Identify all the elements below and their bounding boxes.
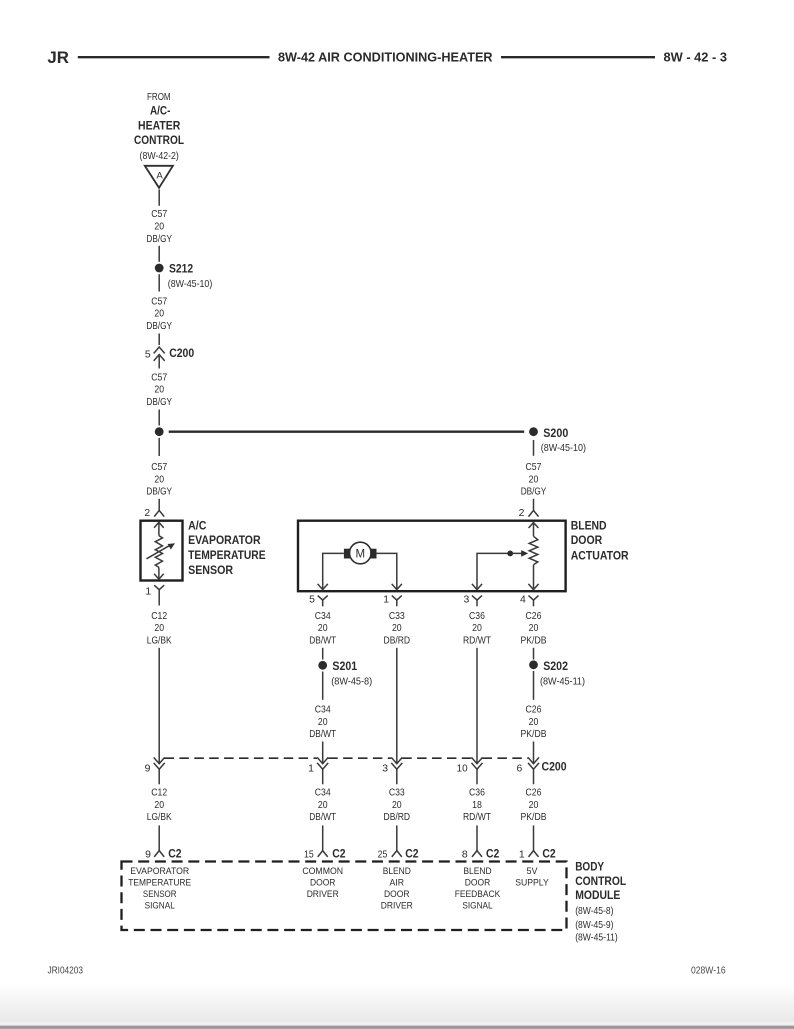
svg-text:C36: C36 — [469, 611, 485, 622]
wire col4 label to BCM — [476, 825, 478, 850]
svg-text:9: 9 — [145, 849, 151, 860]
svg-text:DOOR: DOOR — [465, 877, 491, 888]
svg-text:15: 15 — [304, 849, 314, 860]
svg-text:S212: S212 — [169, 262, 193, 276]
thermistor inside sensor — [147, 522, 176, 579]
BCM pin function BLEND DOOR FEEDBACK SIGNAL — [455, 865, 501, 911]
svg-text:(8W-45-11): (8W-45-11) — [540, 677, 585, 688]
A/C evaporator temperature sensor box — [141, 521, 183, 581]
wire label to actuator pin 2 — [533, 499, 535, 511]
svg-text:DB/WT: DB/WT — [309, 729, 337, 740]
svg-text:DB/GY: DB/GY — [146, 321, 172, 332]
svg-text:2: 2 — [519, 508, 525, 519]
svg-text:DB/RD: DB/RD — [384, 635, 411, 646]
svg-text:C2: C2 — [486, 847, 500, 861]
junction node dot — [155, 427, 164, 436]
svg-text:EVAPORATOR: EVAPORATOR — [130, 865, 189, 876]
connector C200 pin 10 (double chevron col4) — [457, 757, 483, 774]
svg-text:JR: JR — [47, 49, 69, 67]
connector C200 dashed line segment 3 — [402, 757, 471, 759]
connector pin 1 below sensor (fork) — [145, 585, 164, 605]
svg-text:C12: C12 — [151, 788, 167, 799]
wire S202 down — [533, 671, 535, 700]
wire label to splice S212 — [158, 246, 160, 262]
svg-text:5: 5 — [309, 594, 315, 605]
svg-text:C34: C34 — [315, 788, 331, 799]
svg-text:(8W-45-8): (8W-45-8) — [575, 906, 613, 917]
wire S201 down — [322, 672, 324, 700]
wire col2 label to BCM — [322, 825, 324, 850]
svg-text:SENSOR: SENSOR — [143, 888, 177, 899]
wire S200 down col5 — [533, 440, 535, 456]
wire label C57 20 DB/GY col5 — [521, 462, 547, 498]
motor M inside actuator — [344, 542, 377, 564]
off-page connector triangle A — [145, 166, 173, 188]
wire label C34 20 DB/WT col2 (3) — [309, 788, 337, 824]
svg-text:C26: C26 — [526, 611, 542, 622]
svg-text:LG/BK: LG/BK — [147, 812, 172, 823]
svg-text:20: 20 — [529, 623, 539, 634]
wire label C33 20 DB/RD col3 — [384, 611, 411, 647]
connector C200 pin 9 (double chevron col1) — [145, 757, 165, 774]
svg-text:PK/DB: PK/DB — [521, 635, 547, 646]
module name BODY CONTROL MODULE — [575, 859, 627, 943]
svg-text:C36: C36 — [469, 788, 485, 799]
wire col1 label to BCM — [158, 825, 160, 850]
wire col3 C200 to label — [396, 769, 398, 784]
svg-text:A/C-: A/C- — [150, 103, 170, 117]
wire col2 label to C200 — [322, 742, 324, 764]
svg-text:20: 20 — [318, 717, 328, 728]
svg-text:C33: C33 — [389, 788, 405, 799]
wire label to connector C200 — [158, 334, 160, 346]
svg-text:1: 1 — [308, 764, 314, 775]
in-line connector C200 pin 5 (double chevron) — [145, 346, 195, 361]
wire label C57 20 DB/GY (1) — [146, 209, 172, 245]
svg-text:20: 20 — [318, 800, 328, 811]
wire junction down col1 — [158, 438, 160, 456]
svg-text:3: 3 — [382, 764, 388, 775]
wire motor left brush to pin 5 drop — [318, 553, 344, 589]
svg-text:M: M — [356, 548, 366, 560]
splice S200 — [529, 426, 586, 454]
connector pin 1 below actuator (fork) — [383, 594, 401, 606]
svg-text:EVAPORATOR: EVAPORATOR — [188, 533, 261, 547]
BCM pin function 5V SUPPLY — [515, 865, 549, 888]
sensor name A/C EVAPORATOR TEMPERATURE SENSOR — [188, 519, 266, 578]
connector C200 pin 6 (double chevron col5) — [517, 757, 540, 774]
connector pin 2 at sensor (fork) — [144, 508, 164, 519]
blend door actuator box — [298, 521, 566, 592]
svg-text:SUPPLY: SUPPLY — [515, 877, 549, 888]
svg-text:(8W-45-8): (8W-45-8) — [331, 677, 372, 688]
svg-text:5: 5 — [145, 349, 151, 360]
wire label C36 18 RD/WT col4 (2) — [463, 788, 492, 824]
connector C200 dashed line segment 4 — [483, 757, 529, 759]
wire label C57 20 DB/GY (2) — [146, 296, 172, 332]
wire label C12 20 LG/BK col1 (2) — [147, 788, 172, 824]
svg-text:1: 1 — [383, 594, 389, 605]
svg-text:CONTROL: CONTROL — [575, 874, 627, 888]
page bottom shadow — [0, 984, 794, 1029]
svg-text:1: 1 — [145, 586, 151, 597]
svg-text:25: 25 — [378, 849, 388, 860]
svg-text:ACTUATOR: ACTUATOR — [571, 549, 629, 563]
svg-text:BLEND: BLEND — [463, 865, 491, 876]
svg-text:(8W-45-10): (8W-45-10) — [168, 279, 213, 290]
wire label to sensor pin 2 — [158, 499, 160, 511]
svg-text:DB/GY: DB/GY — [146, 234, 172, 245]
connector pin 4 below actuator (fork) — [520, 594, 539, 606]
wire motor right brush to pin 1 drop — [377, 553, 402, 589]
svg-text:20: 20 — [392, 800, 402, 811]
connector C2 pin 1 (fork col5) — [519, 847, 556, 861]
svg-text:(8W-45-11): (8W-45-11) — [575, 932, 618, 943]
svg-text:CONTROL: CONTROL — [134, 133, 185, 147]
wire C200 to label — [158, 356, 160, 369]
svg-text:(8W-45-9): (8W-45-9) — [575, 920, 613, 931]
svg-text:S200: S200 — [543, 426, 568, 440]
svg-text:TEMPERATURE: TEMPERATURE — [128, 877, 191, 888]
wire col5 label to C200 — [533, 742, 535, 764]
svg-text:(8W-45-10): (8W-45-10) — [541, 443, 586, 454]
svg-text:A/C: A/C — [188, 519, 207, 533]
wire label C57 20 DB/GY col1 (4) — [146, 462, 172, 498]
connector C2 pin 15 (fork col2) — [304, 847, 346, 861]
svg-text:RD/WT: RD/WT — [463, 635, 492, 646]
svg-text:028W-16: 028W-16 — [691, 966, 726, 977]
svg-text:DB/GY: DB/GY — [146, 487, 172, 498]
connector C2 pin 9 (fork col1) — [145, 847, 182, 861]
svg-text:(8W-42-2): (8W-42-2) — [140, 151, 179, 162]
svg-text:C57: C57 — [151, 209, 167, 220]
svg-text:18: 18 — [472, 800, 482, 811]
svg-text:10: 10 — [457, 764, 468, 775]
svg-text:LG/BK: LG/BK — [147, 635, 172, 646]
connector C200 dashed line segment 1 — [165, 757, 318, 759]
svg-text:PK/DB: PK/DB — [521, 729, 547, 740]
svg-text:JRI04203: JRI04203 — [48, 966, 84, 977]
svg-text:C2: C2 — [405, 847, 419, 861]
wire label C57 20 DB/GY (3) — [146, 372, 172, 408]
node label FROM A/C-HEATER CONTROL (8W-42-2) — [134, 92, 185, 162]
header JR — [47, 49, 69, 67]
splice S202 — [529, 659, 585, 688]
BCM pin function COMMON DOOR DRIVER — [302, 865, 343, 899]
svg-text:C57: C57 — [151, 296, 167, 307]
svg-text:20: 20 — [529, 800, 539, 811]
svg-text:HEATER: HEATER — [138, 118, 181, 132]
svg-text:20: 20 — [154, 222, 164, 233]
svg-text:2: 2 — [144, 508, 150, 519]
svg-text:8: 8 — [462, 849, 468, 860]
svg-text:6: 6 — [517, 764, 523, 775]
wire label C33 20 DB/RD col3 (2) — [384, 788, 411, 824]
svg-text:DOOR: DOOR — [384, 888, 410, 899]
connector C200 pin 1 (double chevron col2) — [308, 757, 328, 774]
svg-text:DB/WT: DB/WT — [309, 635, 337, 646]
svg-text:DRIVER: DRIVER — [307, 888, 339, 899]
svg-text:DOOR: DOOR — [310, 877, 336, 888]
svg-text:20: 20 — [154, 474, 164, 485]
svg-text:C57: C57 — [151, 462, 167, 473]
wire label C26 20 PK/DB col5 — [521, 611, 547, 647]
svg-text:1: 1 — [519, 849, 525, 860]
wire label C34 20 DB/WT col2 (2) — [309, 705, 337, 741]
BCM pin function BLEND AIR DOOR DRIVER — [381, 865, 413, 911]
svg-text:20: 20 — [392, 623, 402, 634]
wire col2 C200 to label — [322, 769, 324, 784]
svg-text:DOOR: DOOR — [571, 533, 603, 547]
svg-text:SIGNAL: SIGNAL — [462, 900, 492, 911]
svg-text:DB/GY: DB/GY — [521, 487, 547, 498]
wire triangle to C57 label — [158, 190, 160, 206]
svg-text:SIGNAL: SIGNAL — [145, 900, 175, 911]
wire col5 C200 to label — [533, 769, 535, 784]
body control module dashed box — [122, 862, 567, 931]
svg-text:C26: C26 — [526, 705, 542, 716]
wire col4 long run to C200 — [476, 648, 478, 764]
connector pin 2 at actuator (fork) — [519, 508, 539, 519]
svg-text:DB/WT: DB/WT — [309, 812, 337, 823]
svg-text:C200: C200 — [169, 346, 194, 360]
wire col1 long run to C200 — [158, 648, 160, 764]
svg-text:C200: C200 — [542, 759, 567, 773]
svg-text:C2: C2 — [168, 847, 182, 861]
svg-text:C57: C57 — [526, 462, 542, 473]
svg-text:MODULE: MODULE — [575, 888, 620, 902]
wire label C36 20 RD/WT col4 — [463, 611, 492, 647]
svg-text:8W-42 AIR CONDITIONING-HEATER: 8W-42 AIR CONDITIONING-HEATER — [278, 49, 493, 64]
svg-text:C33: C33 — [389, 611, 405, 622]
svg-text:SENSOR: SENSOR — [188, 563, 233, 577]
svg-text:3: 3 — [464, 594, 470, 605]
svg-text:S202: S202 — [543, 659, 568, 673]
svg-text:BLEND: BLEND — [571, 519, 607, 533]
svg-text:20: 20 — [154, 623, 164, 634]
svg-text:A: A — [156, 170, 163, 181]
svg-text:C2: C2 — [542, 847, 556, 861]
svg-text:4: 4 — [520, 594, 526, 605]
svg-text:20: 20 — [154, 800, 164, 811]
svg-text:AIR: AIR — [390, 877, 405, 888]
wire label C12 20 LG/BK col1 — [147, 611, 172, 647]
svg-text:20: 20 — [154, 309, 164, 320]
svg-text:BLEND: BLEND — [383, 865, 411, 876]
connector pin 5 below actuator (fork) — [309, 594, 328, 606]
svg-text:20: 20 — [154, 385, 164, 396]
connector C2 pin 8 (fork col4) — [462, 847, 500, 861]
svg-text:C34: C34 — [315, 705, 331, 716]
svg-text:BODY: BODY — [575, 859, 604, 873]
wiper wire from pin 3 with junction dot and arrow — [472, 550, 528, 590]
header rule right — [501, 56, 655, 58]
connector pin 3 below actuator (fork) — [464, 594, 483, 606]
header rule left — [78, 56, 270, 58]
svg-text:C57: C57 — [151, 372, 167, 383]
svg-text:COMMON: COMMON — [302, 865, 343, 876]
svg-text:PK/DB: PK/DB — [521, 812, 547, 823]
connector C200 dashed line segment 2 — [328, 757, 391, 759]
svg-text:8W - 42 - 3: 8W - 42 - 3 — [664, 49, 728, 64]
svg-text:C34: C34 — [315, 611, 331, 622]
svg-text:DB/GY: DB/GY — [146, 397, 172, 408]
splice S212 — [155, 262, 213, 291]
svg-text:FROM: FROM — [147, 92, 171, 103]
svg-text:RD/WT: RD/WT — [463, 812, 492, 823]
svg-text:DRIVER: DRIVER — [381, 900, 413, 911]
svg-text:20: 20 — [529, 717, 539, 728]
connector C200 pin 3 (double chevron col3) — [382, 757, 402, 774]
svg-text:DB/RD: DB/RD — [384, 812, 411, 823]
svg-text:5V: 5V — [527, 865, 539, 876]
wire col5 label to splice S202 — [533, 648, 535, 660]
wire label C34 20 DB/WT col2 — [309, 611, 337, 647]
svg-text:20: 20 — [529, 474, 539, 485]
actuator name BLEND DOOR ACTUATOR — [571, 519, 629, 563]
svg-text:TEMPERATURE: TEMPERATURE — [188, 548, 266, 562]
svg-text:C26: C26 — [526, 788, 542, 799]
svg-text:9: 9 — [145, 764, 151, 775]
svg-text:20: 20 — [472, 623, 482, 634]
svg-text:C12: C12 — [151, 611, 167, 622]
BCM pin function EVAPORATOR TEMPERATURE SENSOR SIGNAL — [128, 865, 191, 911]
wire label to junction node — [158, 410, 160, 426]
wire label C26 20 PK/DB col5 (3) — [521, 788, 547, 824]
svg-text:20: 20 — [318, 623, 328, 634]
svg-text:FEEDBACK: FEEDBACK — [455, 888, 501, 899]
wire col5 label to BCM — [533, 825, 535, 850]
wire col1 C200 to label — [158, 769, 160, 784]
connector C2 pin 25 (fork col3) — [378, 847, 419, 861]
svg-text:S201: S201 — [332, 659, 357, 673]
potentiometer inside actuator — [528, 523, 538, 590]
splice S201 — [318, 659, 372, 687]
wire col3 long run to C200 — [396, 648, 398, 764]
wire col4 C200 to label — [476, 769, 478, 784]
bus wire junction to splice S200 — [169, 431, 525, 433]
wire col2 label to splice S201 — [322, 648, 324, 660]
svg-text:C2: C2 — [332, 847, 346, 861]
wire col3 label to BCM — [396, 825, 398, 850]
wire splice S212 to label — [158, 274, 160, 291]
wire label C26 20 PK/DB col5 (2) — [521, 705, 547, 741]
